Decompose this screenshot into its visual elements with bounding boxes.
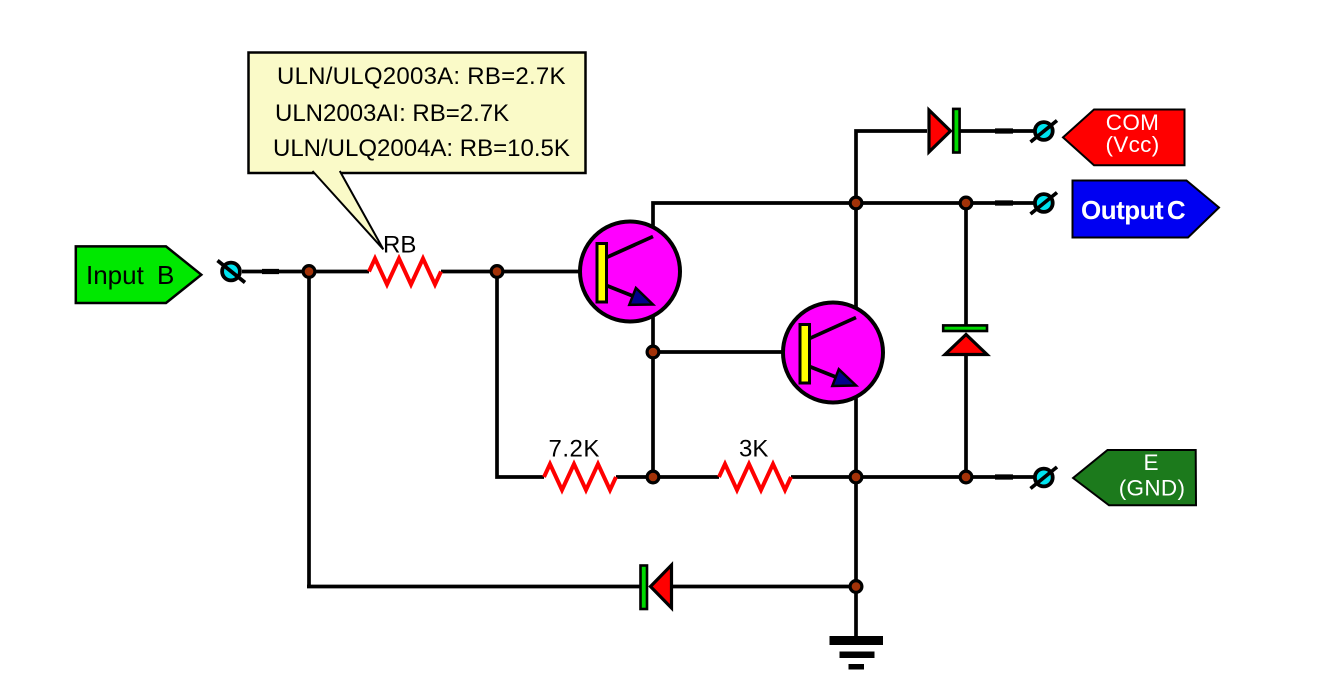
resistor 3K [719, 464, 791, 490]
wire freewheel diode bottom [964, 355, 968, 477]
node J5 3K right / Q2 emitter [850, 471, 862, 483]
svg-text:E: E [1143, 450, 1158, 475]
wire left vertical from input node down [307, 270, 311, 587]
wire Q1 collector riser and output rail [653, 203, 1035, 236]
svg-text:Input B: Input B [86, 260, 174, 290]
wire node A down and to 7.2K [497, 272, 544, 478]
svg-text:ULN/ULQ2003A: RB=2.7K: ULN/ULQ2003A: RB=2.7K [277, 63, 566, 90]
diode D2 (freewheel) [943, 325, 987, 354]
wire 3K to E terminal [791, 475, 1035, 479]
node J3 Q1 emitter / Q2 base [647, 346, 659, 358]
svg-text:ULN/ULQ2004A: RB=10.5K: ULN/ULQ2004A: RB=10.5K [273, 135, 570, 162]
svg-text:(GND): (GND) [1119, 476, 1185, 501]
terminal Output [1031, 193, 1058, 215]
diode D3 (input clamp) [641, 565, 672, 609]
wire output pin dash [995, 200, 1013, 205]
node J7 output rail / Q2 collector [850, 197, 862, 209]
label COM (Vcc) [1063, 110, 1185, 166]
resistor RB [369, 259, 441, 285]
transistor Q1 [580, 222, 680, 322]
wire diode D1 to COM terminal [957, 129, 1035, 133]
wire diode D3 to ground node [672, 585, 856, 589]
svg-text:Output C: Output C [1081, 195, 1186, 225]
terminal COM [1031, 121, 1058, 143]
ground [830, 636, 884, 670]
wire emitter node vertical Q1 [651, 304, 655, 477]
node J6 diode D2 bottom [960, 471, 972, 483]
terminal E [1031, 467, 1058, 489]
wire Q2 base [653, 350, 800, 354]
note box [249, 53, 586, 250]
node J9 ground [850, 581, 862, 593]
diode D1 (COM) [929, 109, 960, 153]
svg-text:3K: 3K [739, 436, 768, 463]
wire bottom rail left to diode D3 [307, 585, 642, 589]
wire input terminal to RB [242, 270, 369, 274]
svg-text:(Vcc): (Vcc) [1106, 132, 1160, 157]
wire input pin dash [262, 269, 279, 274]
transistor Q2 [783, 303, 883, 403]
node J8 output rail / diode D2 top [960, 197, 972, 209]
label Input B [76, 246, 202, 303]
svg-text:RB: RB [383, 232, 416, 259]
svg-text:ULN2003AI: RB=2.7K: ULN2003AI: RB=2.7K [275, 100, 509, 127]
wire ground stem [854, 587, 858, 639]
node J2 after RB [491, 266, 503, 278]
node J4 7.2K right [647, 471, 659, 483]
wire freewheel diode top [964, 203, 968, 326]
wire COM pin dash [995, 128, 1013, 133]
terminal input [218, 261, 246, 283]
wire Q2 collector riser to COM corner [856, 131, 927, 318]
wire Q2 emitter vertical [854, 385, 858, 587]
node J1 input [303, 266, 315, 278]
wire RB to Q1 base [441, 270, 597, 274]
label E (GND) [1073, 450, 1196, 505]
resistor 7.2K [544, 464, 616, 490]
wire between 7.2K and 3K [616, 475, 719, 479]
svg-text:7.2K: 7.2K [549, 436, 600, 463]
label Output C [1073, 181, 1220, 238]
wire E pin dash [995, 474, 1013, 479]
